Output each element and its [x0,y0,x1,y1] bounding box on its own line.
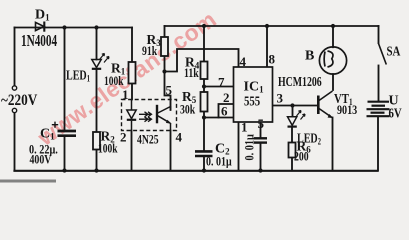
svg-text:30k: 30k [180,103,196,117]
svg-text:4N25: 4N25 [137,133,159,146]
4N25 internal LED [127,100,136,131]
wire R4/R5 branch [203,26,205,151]
wire 555 pin8 [266,26,268,67]
wire 555 pin6 [204,117,234,119]
wire left vertical lower [14,113,16,171]
switch SA [379,44,387,65]
svg-text:0. 01μ: 0. 01μ [206,156,232,169]
wire node A to 555 pin4 run [165,49,239,72]
wire LED1/R2 branch [96,28,98,171]
battery U [367,102,390,117]
capacitor C2 [195,151,213,156]
svg-text:100k: 100k [98,142,118,156]
svg-text:2: 2 [120,130,127,145]
svg-text:8: 8 [269,52,276,67]
wire 555 pin5 to C3 [260,122,262,171]
svg-text:5: 5 [166,83,173,98]
svg-text:3: 3 [277,91,284,106]
svg-text:91k: 91k [142,45,158,59]
IC U1 555 box [234,67,273,122]
capacitor C1 [52,122,76,136]
4N25 light arrows [139,112,152,122]
wire battery to bottom rail [377,117,379,171]
svg-text:SA: SA [386,43,400,59]
node dot R4 bottom pin7 [202,84,206,88]
wire bottom rail [15,170,378,172]
wire emitter down [332,118,334,171]
node dot top rail at pin8 [265,24,269,28]
diode D1 [36,22,45,32]
svg-text:1N4004: 1N4004 [21,32,57,51]
wire switch to battery [378,66,380,102]
wire C1 branch upper [64,28,66,131]
node dot top rail at buzzer [331,24,335,28]
svg-text:6V: 6V [389,105,402,120]
node dot top rail at C1 [62,25,66,29]
AC terminal lower [12,108,16,112]
node dot bottom rail C2 [202,168,206,172]
svg-text:5: 5 [258,116,265,131]
node dot top rail at LED1 [94,25,98,29]
svg-text:1: 1 [241,120,248,135]
wire switch branch top [378,26,380,43]
svg-text:LED1: LED1 [66,67,90,84]
wire C2 lower lead [203,157,205,171]
svg-text:400V: 400V [30,153,53,167]
bottom-left scan smudge [0,180,56,183]
svg-text:9013: 9013 [337,103,357,117]
wire 555 pin1 to ground [238,122,240,171]
svg-text:200: 200 [294,150,309,164]
resistor R5 [201,92,208,112]
svg-text:HCM1206: HCM1206 [278,73,322,89]
wire C1 branch lower [64,137,66,171]
wire 555 pin2 loop [219,104,234,118]
transistor VT1 [318,91,332,118]
buzzer B circle [319,47,346,74]
watermark www.elecfans.com [32,6,221,151]
node dot bottom rail C1 [62,168,66,172]
paper background [0,0,409,183]
node dot pin3 / LED2 [290,103,294,107]
resistor R1 [129,62,136,84]
node dot R3/R4 junction [162,69,166,73]
wire buzzer to collector [332,26,334,90]
svg-text:555: 555 [244,93,260,108]
svg-text:1: 1 [122,87,129,102]
LED LED1 [92,54,109,69]
resistor R2 [93,132,100,150]
wire node A down to 4N25 pin5 [165,72,171,111]
svg-text:4: 4 [176,130,183,145]
node dot top rail at R4 branch [202,24,206,28]
node dot R5 bottom pin6 [202,115,206,119]
svg-text:7: 7 [218,75,225,90]
LED LED2 [288,111,306,127]
wire 555 pin3 to base [273,105,318,107]
optocoupler 4N25 dashed box [122,100,177,131]
wire 4N25 pin2 to bottom rail [131,131,133,171]
node dot bottom rail C3 [258,168,262,172]
svg-text:0. 01μ: 0. 01μ [244,134,257,161]
resistor R6 [289,143,296,158]
buzzer inner symbol [324,51,333,67]
AC terminal upper [12,86,16,90]
wire R3 branch top [164,26,166,37]
wire 555 pin7 [204,86,234,88]
wire R1 branch [131,28,133,100]
resistor R3 [161,37,168,56]
4N25 phototransistor [157,105,171,131]
wire top-left rail [15,27,133,29]
svg-text:~220V: ~220V [1,92,38,109]
wire left vertical upper [14,28,16,86]
capacitor C3 [254,138,267,142]
svg-text:6: 6 [221,104,228,119]
node dot bottom rail R2 [94,168,98,172]
svg-text:B: B [305,49,314,64]
wire R3 to node A [164,56,166,72]
wire top-right rail [165,25,379,27]
resistor R4 [201,62,208,80]
svg-text:11k: 11k [184,67,199,81]
wire 4N25 pin4 to bottom rail [170,131,172,171]
svg-text:4: 4 [240,54,247,69]
wire LED2/R6 branch [291,106,294,171]
